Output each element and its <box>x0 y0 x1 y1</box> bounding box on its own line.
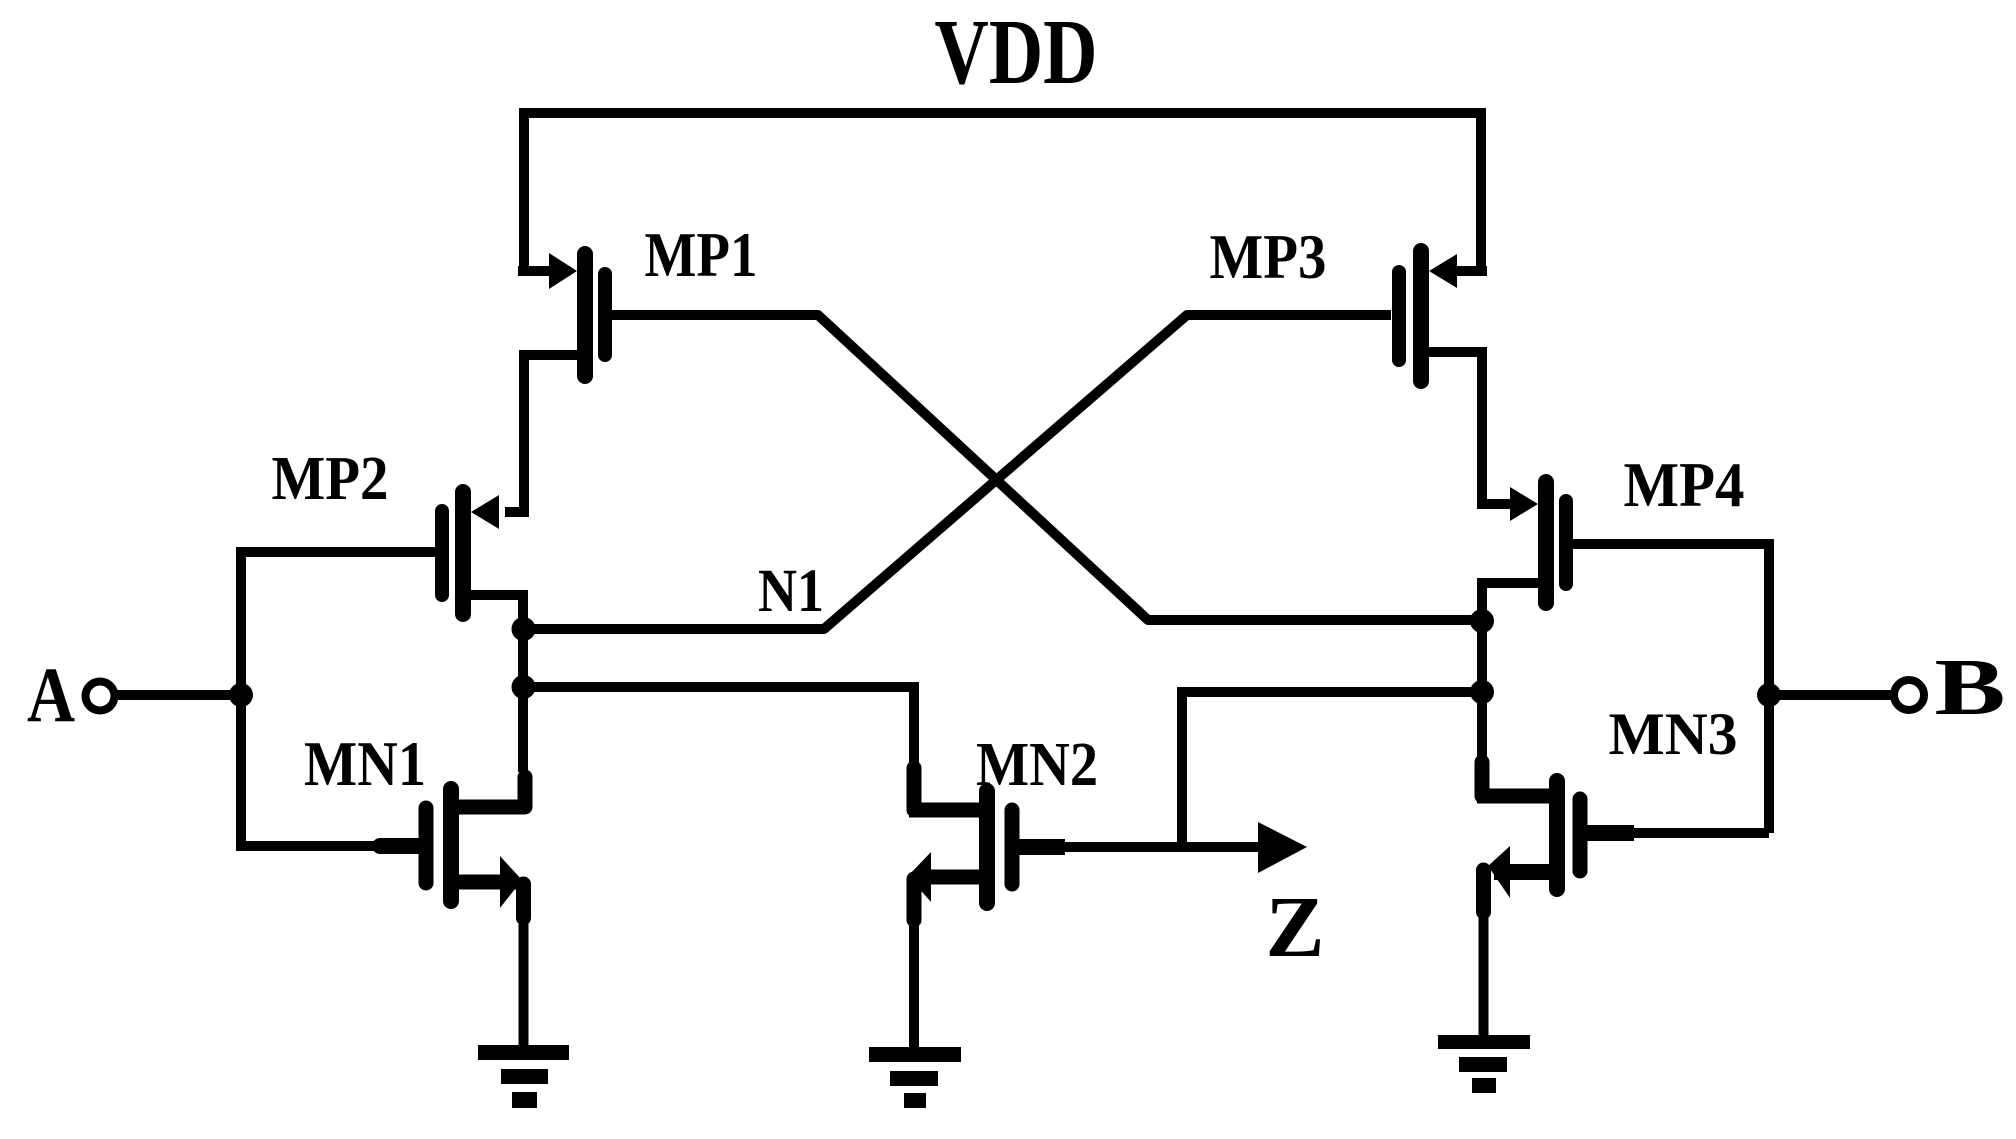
transistor MP4 (PMOS) <box>1510 482 1566 603</box>
wire VDD rail with left and right drops <box>524 113 1481 271</box>
wire MN1 source to ground <box>519 918 529 1045</box>
node junction A dot <box>229 683 253 707</box>
node right cross dot <box>1470 609 1494 633</box>
wire node B to terminal <box>1769 690 1891 700</box>
arrow Z output <box>1258 822 1307 873</box>
ground under MN1 <box>478 1045 569 1108</box>
node N1 dot (left) <box>512 617 536 641</box>
wire MP1 drain down to MP2 source <box>505 355 577 512</box>
wire MP1 source lead <box>518 266 570 276</box>
wire MP4 drain down through right nodes to MN3 drain <box>1482 583 1538 764</box>
wire MN1 gate thick stub <box>380 838 421 854</box>
node right lower dot <box>1470 680 1494 704</box>
transistor MP3 (PMOS) <box>1399 251 1487 381</box>
MN2 drain lead <box>909 803 979 818</box>
MP4 channel bar <box>1538 482 1554 603</box>
MN3 drain stub <box>1475 762 1490 796</box>
MN3 gate thick stub <box>1586 825 1634 841</box>
MP3 source lead <box>1450 266 1487 276</box>
wire MP1 gate to node at MP4 drain (diagonal cross link) <box>611 315 1482 620</box>
wire MN2 gate to Z <box>1065 842 1262 852</box>
MN3 source lead <box>1494 864 1550 880</box>
ground under MN3 <box>1438 1035 1530 1093</box>
wire MP2 drain down through node N1 and MN2-branch node to MN1 drain <box>471 595 523 772</box>
wire vertical tee into MN2 gate line <box>1177 687 1187 848</box>
MN2 channel bar <box>979 791 995 903</box>
MP3 source arrow <box>1429 254 1457 288</box>
MN1 channel bar <box>443 789 459 901</box>
MN1 drain lead <box>459 777 525 807</box>
wire A to junction <box>114 690 241 700</box>
MP1 gate bar <box>598 274 612 355</box>
MP3 channel bar <box>1413 251 1429 381</box>
svg-text:N1: N1 <box>758 558 824 625</box>
transistor MP1 (PMOS) <box>549 253 605 376</box>
wire left branch to MN2 drain <box>524 687 915 770</box>
svg-text:MP4: MP4 <box>1624 449 1745 520</box>
wire MP3 drain down to MP4 source <box>1429 352 1512 504</box>
MN2 source lead <box>924 870 979 885</box>
transistor MN3 (NMOS) <box>1477 762 1634 912</box>
wire MN3 source to ground <box>1479 912 1489 1035</box>
MN3 gate bar <box>1573 799 1588 871</box>
MN2 gate bar <box>1005 810 1020 884</box>
wire MN2 source to ground <box>909 920 919 1047</box>
MP1 channel bar <box>577 254 593 376</box>
terminal B circle <box>1894 680 1924 710</box>
node MN2-branch dot (left) <box>512 675 536 699</box>
MP3 gate bar <box>1392 272 1406 360</box>
MN3 source stub <box>1476 870 1491 912</box>
MP2 gate bar <box>435 511 449 595</box>
ground under MN2 <box>869 1047 961 1108</box>
svg-text:MP2: MP2 <box>272 445 389 513</box>
wire MP4 gate to node B <box>1573 544 1769 833</box>
node B dot <box>1757 683 1781 707</box>
terminal A circle <box>86 682 115 711</box>
svg-text:MN2: MN2 <box>976 731 1098 799</box>
wire MP2 gate / A node / MN1 gate <box>241 552 435 846</box>
svg-text:MN3: MN3 <box>1609 701 1738 767</box>
svg-text:B: B <box>1935 644 2006 732</box>
MP1 source arrow <box>549 253 577 289</box>
wire node N1 to MP3 gate (diagonal cross link) <box>524 315 1392 629</box>
wire right lower branch from MN2 area <box>1182 687 1482 697</box>
svg-text:VDD: VDD <box>935 1 1098 104</box>
MP4 gate bar <box>1559 501 1573 584</box>
MN2 source arrow <box>908 852 931 902</box>
svg-text:MN1: MN1 <box>304 729 426 799</box>
MN2 gate thick stub <box>1018 839 1065 855</box>
svg-text:A: A <box>27 651 75 738</box>
MN1 source stub <box>516 884 531 918</box>
MN3 channel bar <box>1549 781 1565 889</box>
MN1 source lead <box>459 875 516 890</box>
MN2 drain stub <box>907 768 922 810</box>
transistor MN1 (NMOS) <box>426 777 525 918</box>
MP4 source arrow <box>1510 487 1538 521</box>
wire MN3 gate to node B <box>1634 828 1769 838</box>
transistor MP2 (PMOS) <box>442 492 499 614</box>
svg-text:MP1: MP1 <box>645 219 758 290</box>
svg-text:Z: Z <box>1266 878 1325 975</box>
transistor MN2 (NMOS) <box>908 768 1065 920</box>
MN1 source arrow <box>500 856 522 908</box>
MN3 source arrow <box>1488 846 1510 898</box>
MP2 channel bar <box>455 492 471 614</box>
MP2 source arrow <box>471 495 499 529</box>
MN1 gate bar <box>419 808 434 883</box>
MN3 drain lead <box>1477 789 1550 804</box>
MN2 source stub <box>907 879 922 920</box>
svg-text:MP3: MP3 <box>1210 221 1327 292</box>
